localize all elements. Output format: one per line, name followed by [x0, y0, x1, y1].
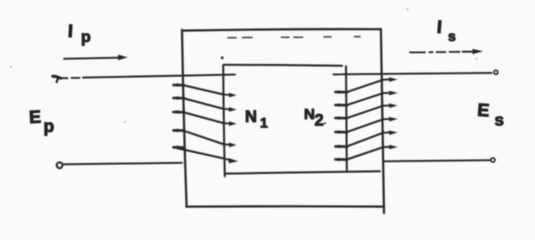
secondary winding N2 turn 5 [334, 130, 398, 148]
svg-text:N: N [304, 106, 315, 123]
primary winding N1 turn 1 [172, 83, 237, 97]
current arrow Ip [64, 55, 128, 61]
inner window: left edge [223, 65, 225, 176]
wire: secondary top lead [334, 73, 492, 75]
inner window: top edge [224, 65, 342, 66]
scan speck top right [407, 9, 409, 11]
wire: primary bottom lead [64, 163, 182, 165]
primary winding N1 turn 5 [172, 145, 238, 163]
transformer core outer box: right edge [381, 29, 384, 213]
dashed construction line inside core top [228, 37, 360, 38]
speck after N2 [324, 122, 326, 124]
scan speck left of N1 box [124, 121, 126, 123]
transformer core outer box: left edge [182, 30, 187, 207]
secondary winding N2 turn 1 [334, 77, 398, 94]
svg-text:1: 1 [260, 115, 268, 131]
secondary winding N2 turn 2 [334, 91, 398, 107]
svg-text:E: E [477, 100, 490, 121]
svg-text:s: s [495, 111, 504, 130]
secondary winding N2 turn 6 [334, 145, 398, 161]
wire: secondary bottom lead [384, 160, 490, 161]
svg-text:I: I [67, 21, 73, 41]
transformer core outer box: top edge [182, 29, 381, 30]
transformer core outer box: bottom edge [186, 205, 384, 208]
secondary winding N2 turn 4 [334, 117, 398, 134]
terminal: primary bottom [57, 162, 63, 168]
primary winding N1 turn 4 [172, 129, 237, 148]
svg-text:s: s [448, 28, 456, 44]
svg-text:2: 2 [315, 112, 324, 130]
svg-text:p: p [44, 116, 55, 136]
inner window: bottom edge [226, 171, 380, 173]
primary winding N1 turn 3 [172, 110, 237, 126]
terminal: secondary bottom [491, 158, 495, 162]
scan speck far left [10, 66, 12, 68]
wire: primary top lead [53, 75, 235, 82]
inner window: right edge [345, 66, 348, 171]
svg-text:E: E [29, 107, 42, 128]
svg-text:p: p [81, 29, 91, 46]
secondary winding N2 turn 3 [334, 103, 398, 119]
svg-text:I: I [436, 17, 442, 37]
node dot above inner window top-left corner [221, 56, 224, 59]
scan speck near Is arrow [476, 58, 478, 60]
svg-text:N: N [245, 108, 257, 126]
current arrow Is (dashed) [410, 49, 483, 54]
primary winding N1 turn 2 [172, 96, 237, 112]
terminal: secondary top [494, 70, 498, 74]
